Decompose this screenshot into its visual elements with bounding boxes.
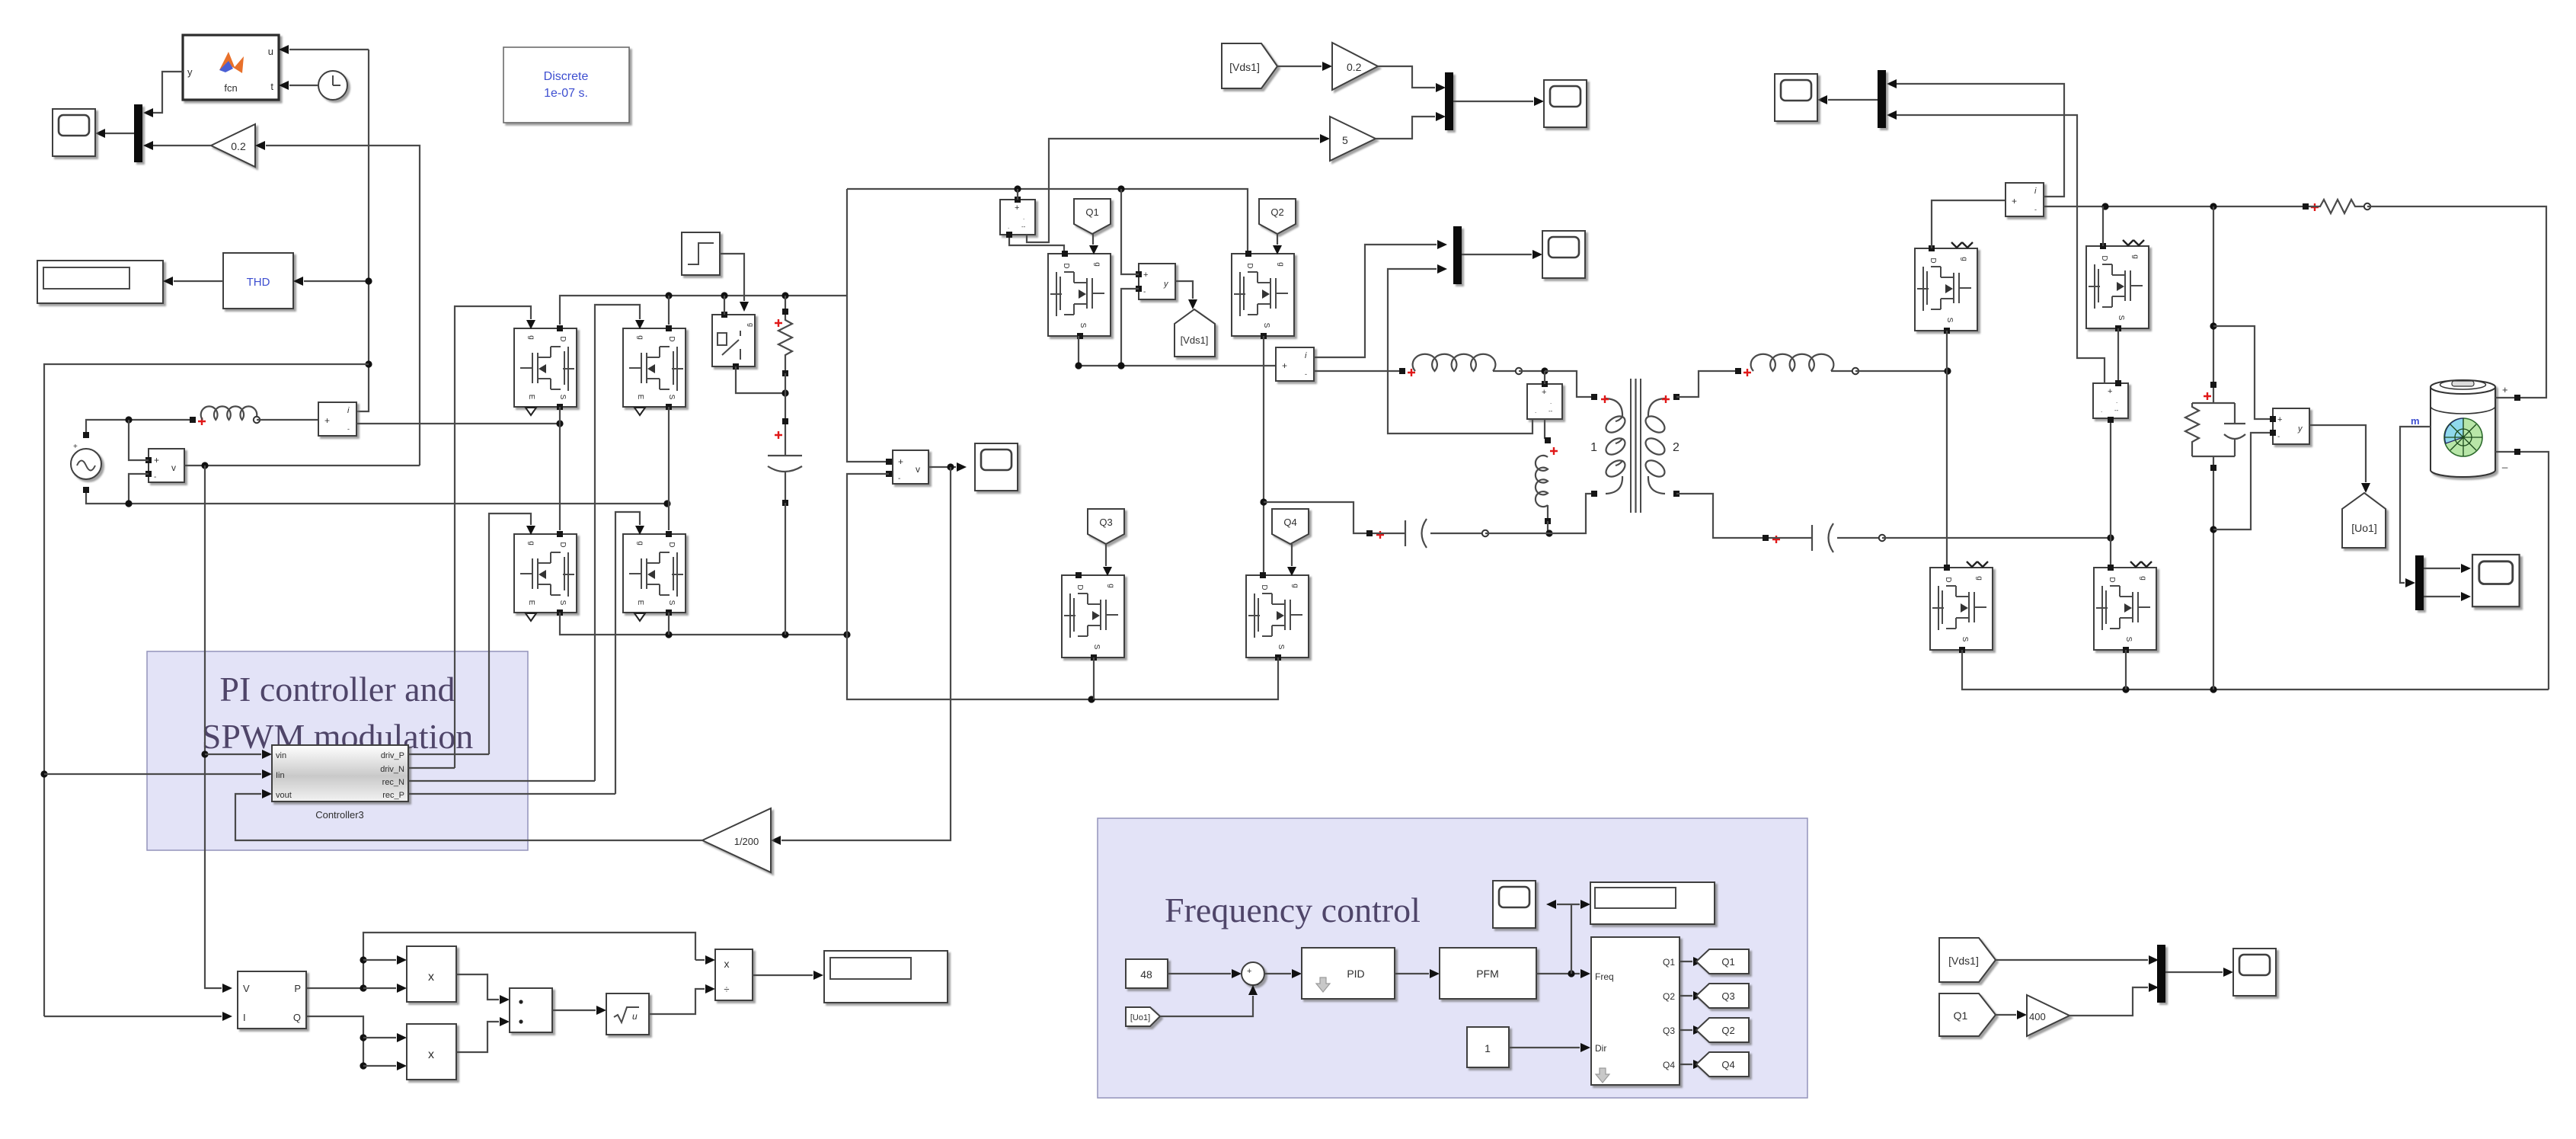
- From tag Q4: [1272, 509, 1309, 544]
- wire gain0.2 to mux4: [1378, 66, 1435, 88]
- wire THD input from node x484: [304, 280, 369, 282]
- svg-text:Q1: Q1: [1663, 957, 1675, 968]
- DC link capacitor C1: [782, 418, 788, 424]
- svg-text:Q1: Q1: [1085, 206, 1098, 218]
- wire Q4 source to bottom rail: [1276, 657, 1278, 699]
- wire Iin feed y1016: [44, 773, 261, 775]
- svg-text:vin: vin: [276, 751, 286, 760]
- svg-text:Q3: Q3: [1721, 990, 1734, 1002]
- current measurement I1: [318, 402, 356, 436]
- THD block: [223, 253, 293, 309]
- scope5: [1775, 74, 1817, 121]
- wire I input of PQ meter y1330: [44, 1016, 222, 1017]
- wire V3 + from rail: [1121, 189, 1139, 274]
- wire gain G1 output to mux1: [153, 145, 211, 146]
- svg-text:g: g: [747, 323, 755, 327]
- wire M8 source: [2125, 650, 2127, 689]
- scope6: [2472, 555, 2520, 606]
- series measurement S1 (Q1 drain current): [1000, 200, 1035, 235]
- wire PFM to Freq: [1536, 973, 1580, 974]
- wire secondary top to Ls2: [1676, 371, 1738, 397]
- mosfet M4 lower-right: [623, 526, 686, 621]
- wire X2 out to adder: [456, 1022, 499, 1052]
- divide block: [715, 949, 753, 1000]
- wire vin input: [205, 753, 261, 755]
- resonant inductor Ls2 (secondary): [1751, 354, 1834, 371]
- svg-text:u: u: [268, 46, 273, 57]
- battery - port: [2495, 451, 2514, 453]
- gain G2 1/200: [702, 808, 771, 872]
- From tag Q1: [1074, 199, 1111, 234]
- wire Q1 to gain 400: [1996, 1014, 2016, 1016]
- svg-text:+: +: [2502, 384, 2508, 395]
- gain G6 400: [2027, 995, 2069, 1036]
- magnetizing inductor Lm (vertical): [1536, 456, 1548, 507]
- wire AC- bottom rail to leg2 midpoint: [86, 493, 667, 504]
- svg-text:5: 5: [1342, 134, 1348, 146]
- battery + port: [2495, 397, 2514, 398]
- svg-text:+: +: [1247, 967, 1251, 976]
- svg-text:rec_P: rec_P: [382, 791, 404, 800]
- wire V2 out to scope2 and 1/200: [928, 466, 956, 468]
- breaker switch B1: [712, 315, 755, 366]
- gate wire M4 (rec_P): [615, 512, 640, 794]
- svg-text:Q2: Q2: [1721, 1025, 1734, 1036]
- svg-text:THD: THD: [247, 276, 270, 289]
- wire sqrt to divide: [649, 989, 705, 1014]
- svg-text:x: x: [724, 958, 730, 970]
- From tag [Vds1] bottom right: [1939, 938, 1996, 982]
- wire driv_P output: [408, 753, 489, 755]
- wire PFM branch to scope7/display2: [1557, 904, 1580, 974]
- clock source: [318, 71, 347, 100]
- wire M5 source to leg1 mid: [1946, 331, 1948, 568]
- wire R2 to battery +: [2367, 206, 2546, 398]
- From tag Q1 bottom right: [1939, 993, 1996, 1036]
- Discrete solver block: [503, 47, 629, 123]
- svg-text:1: 1: [1590, 441, 1597, 454]
- wire PID to PFM: [1395, 973, 1429, 974]
- svg-text:1e-07 s.: 1e-07 s.: [544, 87, 588, 100]
- scope4: [1544, 80, 1587, 127]
- wire long left feed y478: [44, 364, 369, 1016]
- svg-text:÷: ÷: [724, 984, 729, 995]
- panel: Frequency control: [1098, 818, 1807, 1098]
- Goto tag Q3: [1696, 984, 1749, 1008]
- wire THD to display D1: [174, 280, 223, 282]
- svg-text:400: 400: [2029, 1011, 2046, 1022]
- wire M5 drain to I3: [1932, 200, 2006, 248]
- Goto tag Q1: [1696, 949, 1749, 974]
- svg-text:Q4: Q4: [1283, 517, 1296, 528]
- mosfet M6 upper leg2: [2086, 240, 2149, 331]
- svg-text:PFM: PFM: [1476, 968, 1499, 980]
- wire rec_N output: [408, 780, 595, 782]
- wire mux3 to scope3: [1462, 254, 1532, 255]
- precharge resistor R1 (vertical): [785, 296, 786, 312]
- svg-text:_: _: [1253, 977, 1259, 986]
- Goto tag Q2: [1696, 1018, 1749, 1042]
- wire tag to gain 0.2: [1277, 66, 1322, 67]
- wire Cs2 to right bridge leg2 midpoint: [1882, 537, 2111, 539]
- svg-text:0.2: 0.2: [231, 140, 246, 152]
- wire mux1 to scope1: [105, 133, 134, 134]
- wire adder to sqrt: [552, 1009, 596, 1011]
- multiply block X1: [407, 946, 456, 1002]
- [Vds1] From tag top: [1222, 43, 1277, 88]
- battery: [2431, 380, 2495, 477]
- svg-text:PI controller and: PI controller and: [219, 670, 455, 709]
- series meas S2 (primary voltage): [1527, 384, 1562, 419]
- wire battery - to bottom rail: [2520, 452, 2549, 689]
- wire S2 signal to mux3 input2: [1388, 269, 1532, 434]
- mosfet M1 upper-left: [514, 320, 577, 415]
- DC bus sense riser x1112: [847, 189, 889, 462]
- wire mux5 to scope5: [1828, 99, 1878, 101]
- wire clock to fcn t: [289, 85, 318, 86]
- constant 48: [1126, 959, 1168, 988]
- wire - sense to V4: [2213, 433, 2273, 530]
- svg-text:+: +: [73, 443, 78, 451]
- wire mux4 to scope4: [1453, 101, 1533, 102]
- PFM block: [1440, 948, 1536, 999]
- wire Q2 source down to Q4 drain: [1263, 336, 1264, 575]
- svg-text:I: I: [243, 1012, 246, 1023]
- mux4: [1445, 72, 1453, 130]
- AC voltage source V ac: [71, 443, 101, 479]
- wire breaker bottom to resistor node: [736, 366, 785, 393]
- wire V1 output to x551 and down to controller vin / PQ V: [184, 465, 420, 466]
- svg-text:Discrete: Discrete: [544, 70, 589, 83]
- display3: [824, 951, 948, 1003]
- constant 1: [1467, 1027, 1509, 1067]
- voltage measurement V2 (dc link): [893, 450, 928, 484]
- wire v2 - sense to bottom rail: [847, 474, 1276, 699]
- svg-text:Iin: Iin: [276, 771, 285, 780]
- wire tag Q2 to gate: [1277, 234, 1278, 245]
- mosfet Q3: [1062, 567, 1124, 661]
- resonant inductor Ls (primary): [1413, 354, 1496, 371]
- mux1 (flipped): [134, 104, 142, 162]
- svg-text:fcn: fcn: [224, 82, 237, 94]
- voltage measurement V1: [149, 449, 184, 482]
- gate wire M1 (driv_N): [455, 306, 531, 768]
- wire leg1 midpoint: [559, 407, 561, 530]
- svg-text:1: 1: [1485, 1042, 1491, 1054]
- display D1: [37, 261, 163, 303]
- svg-text:Q1: Q1: [1721, 956, 1734, 968]
- wire Q3 source to bottom rail: [1093, 657, 1095, 699]
- svg-text:Dir: Dir: [1595, 1043, 1606, 1054]
- wire V1 + sense: [129, 420, 149, 460]
- wire V2 to 1/200 gain: [781, 467, 951, 840]
- wire V3 out to goto Vds1: [1175, 281, 1193, 299]
- mosfet Q1: [1048, 245, 1111, 339]
- scope2: [975, 443, 1018, 491]
- wire I3 power out - output top rail y271: [2044, 206, 2306, 207]
- wire divide to display3: [753, 974, 813, 976]
- svg-text:48: 48: [1140, 968, 1152, 981]
- From tag Q2: [1259, 199, 1296, 234]
- svg-text:Q2: Q2: [1663, 991, 1675, 1002]
- svg-text:1/200: 1/200: [734, 836, 759, 847]
- wire + sense to V4: [2213, 326, 2273, 419]
- wires demux to scope6: [2424, 568, 2460, 569]
- wire M4 source: [668, 613, 670, 635]
- multiply block X2: [407, 1024, 456, 1080]
- wire 1 to Dir: [1509, 1047, 1580, 1048]
- resonant capacitor Cs2 (secondary): [1763, 535, 1769, 541]
- wire V1 - sense: [129, 474, 149, 504]
- mosfet M7 lower leg1: [1930, 562, 1993, 653]
- panel: PI controller and SPWM modulation: [147, 651, 528, 850]
- add block A1: [510, 988, 552, 1032]
- svg-text:2: 2: [1673, 441, 1680, 454]
- svg-text:driv_N: driv_N: [380, 765, 404, 774]
- svg-text:[Vds1]: [Vds1]: [1948, 955, 1979, 967]
- svg-text:driv_P: driv_P: [381, 751, 404, 760]
- svg-text:Q3: Q3: [1663, 1025, 1675, 1036]
- gate wire M2 (rec_N): [595, 305, 640, 781]
- wire phase B to resonant cap: [1264, 502, 1369, 533]
- wire I3 signal to mux5: [1897, 84, 2064, 197]
- wire Ls to node A: [1519, 370, 1545, 372]
- wire S3 signal to mux5: [1897, 115, 2105, 383]
- wire 1/200 to controller vout: [235, 794, 702, 840]
- svg-text:Freq: Freq: [1595, 971, 1614, 982]
- wire V3 - from midrail: [1121, 289, 1139, 366]
- mux6: [2157, 945, 2165, 1003]
- wire L1 to current meas I1: [257, 419, 318, 421]
- wire Cs to transformer primary bottom: [1485, 494, 1594, 533]
- wire rec_P output: [408, 793, 615, 795]
- current meas I2 (tank current): [1276, 347, 1314, 381]
- wire Q1 source to midrail: [1078, 336, 1079, 366]
- svg-text:Q: Q: [293, 1012, 301, 1023]
- midrail y480: [1079, 365, 1276, 366]
- wire gain5 to mux4: [1376, 117, 1435, 139]
- display2: [1590, 882, 1715, 924]
- wire Vds1 to mux6: [1996, 959, 2148, 961]
- Goto tag [Uo1]: [2342, 493, 2386, 548]
- gain G5 5 (right): [1330, 117, 1376, 161]
- inductor L1: [190, 417, 196, 423]
- wire M2 drain: [668, 296, 670, 325]
- svg-text:_: _: [2501, 457, 2508, 469]
- svg-text:V: V: [243, 983, 250, 994]
- wire secondary bottom to Cs2: [1676, 494, 1766, 538]
- wire step to breaker gate: [720, 254, 744, 301]
- wire M3 source to bottom rail: [560, 613, 847, 635]
- svg-text:vout: vout: [276, 791, 292, 800]
- Goto tag [Vds1]: [1175, 309, 1215, 357]
- svg-text:Controller3: Controller3: [315, 809, 364, 821]
- wire driv_N output: [408, 767, 455, 769]
- wire V4 out to goto Uo1: [2309, 425, 2366, 482]
- mux5 (flipped): [1878, 70, 1886, 128]
- wire rail to S1: [1017, 189, 1018, 200]
- svg-text:u: u: [632, 1011, 638, 1022]
- sqrt block: [606, 993, 649, 1035]
- wire I2 signal to mux3: [1314, 245, 1437, 357]
- step source: [682, 232, 720, 275]
- output resistor R2: [2303, 203, 2309, 210]
- demux: [2415, 555, 2424, 610]
- svg-text:0.2: 0.2: [1347, 61, 1362, 73]
- wire 48 to sum: [1168, 973, 1231, 974]
- wire X1 out to adder: [456, 974, 499, 1000]
- wire S2 bottom to Lm: [1544, 419, 1545, 439]
- voltage meas V4 (Uo1): [2273, 408, 2309, 444]
- series meas S3 (leg2 current): [2093, 383, 2128, 418]
- mosfet M8 lower leg2: [2094, 562, 2156, 653]
- PFM subsystem (Freq/Dir to Q1..Q4): [1591, 937, 1680, 1085]
- svg-text:m: m: [2411, 415, 2420, 427]
- From tag [Uo1] small: [1126, 1007, 1160, 1026]
- right bridge upper leg1 mosfet M5: [1915, 242, 1977, 334]
- scope7: [1493, 881, 1536, 928]
- wire I2 power out to Ls: [1314, 370, 1402, 372]
- wire Ls2 to right bridge leg1 midpoint: [1855, 370, 1948, 372]
- svg-text:Q1: Q1: [1954, 1009, 1968, 1022]
- wire P junction column: [363, 933, 695, 988]
- mosfet Q4: [1246, 567, 1309, 661]
- svg-text:PID: PID: [1347, 968, 1364, 980]
- svg-text:Q4: Q4: [1721, 1059, 1734, 1070]
- wire sum to PID: [1264, 973, 1291, 974]
- scope3: [1542, 231, 1585, 278]
- wire fcn u input from node x484: [289, 49, 369, 50]
- wire node A to transformer primary +: [1545, 371, 1594, 397]
- svg-text:[Uo1]: [Uo1]: [1130, 1013, 1150, 1022]
- left bridge top rail: [560, 296, 847, 325]
- wire Q output: [306, 1016, 363, 1066]
- resonant capacitor Cs (primary, series): [1366, 530, 1373, 536]
- wires subsystem outputs to goto tags: [1680, 961, 1692, 962]
- svg-text:Q3: Q3: [1099, 517, 1112, 528]
- gain G4 0.2 (right): [1332, 43, 1378, 90]
- wire M6 source to S3: [2117, 328, 2119, 383]
- scope1: [53, 109, 95, 156]
- svg-text:Q2: Q2: [1270, 206, 1283, 218]
- wire AC+ to node A: [86, 420, 193, 432]
- gate wire M3 (driv_P): [489, 514, 531, 754]
- current meas I3: [2006, 183, 2044, 216]
- sum junction circle: [1242, 962, 1264, 986]
- svg-text:[Vds1]: [Vds1]: [1181, 334, 1209, 346]
- wire S1 to Q1 drain: [1009, 235, 1064, 254]
- From tag Q3: [1088, 509, 1124, 544]
- wire I1 out to bridge mid leg1: [356, 423, 560, 424]
- MATLAB function block U1 (fcn): [183, 35, 279, 100]
- mosfet Q2: [1232, 245, 1294, 339]
- wire M6 drain to rail: [2102, 206, 2104, 246]
- wire mux6 to scope8: [2165, 971, 2223, 973]
- wire gain G1 input from v-meas V1 via x551: [266, 146, 420, 466]
- wire P output: [306, 987, 363, 989]
- svg-text:P: P: [294, 983, 301, 994]
- mux3: [1453, 226, 1462, 284]
- svg-text:Q4: Q4: [1663, 1060, 1675, 1070]
- scope8: [2233, 949, 2276, 996]
- gain G1 0.2 (left pointing): [211, 124, 255, 167]
- wire M7 source to bottom rail: [1962, 650, 2549, 689]
- wire S1 signal out to gain G5: [1027, 139, 1319, 242]
- svg-text:t: t: [270, 81, 273, 92]
- Goto tag Q4: [1696, 1052, 1749, 1077]
- wire breaker top to rail: [724, 296, 725, 315]
- svg-text:[Uo1]: [Uo1]: [2351, 522, 2376, 534]
- svg-text:y: y: [187, 66, 193, 78]
- svg-text:x: x: [428, 971, 434, 984]
- PQ power measurement block: [238, 971, 306, 1029]
- svg-text:[Vds1]: [Vds1]: [1229, 61, 1260, 73]
- svg-text:rec_N: rec_N: [382, 778, 404, 787]
- wire gain 400 to mux6: [2069, 987, 2148, 1016]
- PID block: [1302, 948, 1395, 999]
- parallel RC filter: [2192, 388, 2235, 468]
- svg-text:x: x: [428, 1048, 434, 1061]
- wire S3 bottom to leg2 mid: [2110, 418, 2111, 568]
- mosfet M3 lower-left: [514, 526, 577, 621]
- wire node vertical x484 (current i1 to fcn u / THD): [356, 50, 369, 411]
- wire leg2 midpoint: [668, 407, 670, 530]
- voltage meas V3 (Vds1): [1139, 264, 1175, 299]
- middle bridge top rail y248: [847, 189, 1248, 254]
- mosfet M2 upper-right: [623, 320, 686, 415]
- wire Uo1 to sum: [1160, 996, 1253, 1016]
- wire tag Q1 to gate: [1092, 234, 1094, 245]
- svg-text:Frequency control: Frequency control: [1165, 891, 1421, 929]
- RC filter riser: [2213, 206, 2214, 385]
- wire fcn y output to mux1: [153, 72, 183, 113]
- transformer T1: [1603, 379, 1668, 513]
- battery recycle logo: [2444, 418, 2482, 456]
